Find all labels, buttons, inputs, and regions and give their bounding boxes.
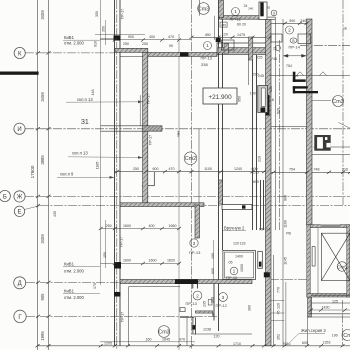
beam black square	[242, 205, 246, 208]
stair landing line	[270, 126, 307, 128]
wall W6 lower piece	[308, 297, 312, 317]
line x285.9 lower right	[285, 282, 287, 346]
svg-text:529: 529	[277, 108, 281, 114]
small rect 28	[208, 300, 212, 306]
axis I horizontal	[25, 128, 350, 130]
black wall top right lower bars	[293, 86, 308, 88]
beam outline over H1	[217, 43, 269, 54]
wall H1 black segment	[180, 52, 189, 56]
svg-text:225: 225	[257, 56, 263, 60]
duct shaft black box	[261, 108, 266, 113]
wall W1 left line	[114, 0, 116, 346]
top right rect b	[298, 34, 311, 44]
svg-text:Сm: Сm	[343, 333, 350, 339]
wall H0 hatched horizontal top	[220, 16, 261, 20]
axis G horizontal	[26, 315, 218, 317]
wall W7 hatched (right-center)	[266, 20, 272, 346]
wall H1a hatched horizontal	[115, 48, 148, 52]
svg-text:ПР-12: ПР-12	[230, 16, 242, 21]
svg-text:900: 900	[283, 195, 287, 201]
svg-text:1600: 1600	[149, 259, 157, 263]
wall I-axis stub hatched	[143, 126, 162, 131]
axis circle B(half)	[0, 190, 10, 201]
svg-text:746: 746	[271, 57, 277, 61]
svg-text:ПР-17: ПР-17	[149, 135, 153, 145]
PR labels	[186, 16, 301, 308]
svg-text:ПР-17: ПР-17	[147, 94, 151, 104]
duct shaft mid right outline	[258, 86, 268, 113]
svg-text:970: 970	[179, 338, 185, 342]
svg-text:120: 120	[214, 335, 220, 339]
svg-text:600: 600	[253, 180, 259, 184]
svg-text:3885: 3885	[40, 155, 45, 165]
svg-text:3459: 3459	[40, 234, 45, 244]
room below shaft lines	[308, 295, 350, 317]
svg-text:1100: 1100	[204, 167, 212, 171]
svg-text:05: 05	[229, 260, 233, 264]
bottom centre room rect outer	[223, 250, 256, 279]
svg-text:ПР-14: ПР-14	[259, 227, 271, 232]
mid chain ticks	[115, 170, 119, 173]
svg-text:отм. 2.000: отм. 2.000	[64, 269, 85, 274]
axis vertical x191.5	[191, 0, 193, 350]
svg-text:352: 352	[277, 334, 281, 340]
line x199.5 top	[199, 0, 201, 16]
svg-text:235: 235	[203, 301, 207, 307]
duct shaft inner slot	[262, 88, 266, 106]
svg-text:ПР-17: ПР-17	[121, 312, 125, 322]
svg-text:900: 900	[128, 35, 134, 39]
black junction W3 top dim	[216, 38, 221, 42]
svg-text:1995: 1995	[40, 331, 45, 341]
svg-text:190: 190	[250, 92, 256, 96]
svg-text:600: 600	[153, 167, 159, 171]
svg-text:190: 190	[211, 253, 215, 259]
top chain ticks	[113, 38, 117, 41]
wall W5 hatched	[195, 205, 200, 238]
dimension chain top y40	[100, 39, 192, 41]
svg-text:1Б: 1Б	[343, 27, 347, 31]
dimension line 754 with arrows	[284, 54, 307, 57]
svg-text:КиВ1: КиВ1	[64, 289, 75, 294]
svg-text:219: 219	[258, 156, 262, 162]
elevator car rect with X	[318, 228, 350, 294]
svg-text:605: 605	[302, 341, 308, 345]
elevator shaft walls	[307, 225, 350, 298]
svg-text:754: 754	[289, 168, 295, 172]
wall H4 hatched band	[195, 311, 212, 313]
svg-text:скл.п 13: скл.п 13	[77, 97, 93, 102]
svg-text:отм. 2.000: отм. 2.000	[64, 295, 85, 300]
top shaft column outline	[259, 2, 267, 20]
svg-text:Сm5: Сm5	[337, 264, 347, 269]
svg-text:1710: 1710	[233, 342, 241, 346]
line x273.4 lower	[272, 255, 274, 346]
ticks on y310 chain	[309, 308, 347, 311]
axis circle G	[14, 310, 26, 322]
svg-text:Жил.серия 3: Жил.серия 3	[301, 328, 326, 333]
ext line x140.2	[139, 95, 141, 126]
dimension chain top y34.7	[95, 34, 145, 36]
svg-text:ПР-13: ПР-13	[201, 56, 213, 61]
svg-text:Д: Д	[18, 281, 22, 287]
svg-text:900: 900	[289, 19, 295, 23]
dimension chain bottom main y345.8	[38, 345, 350, 347]
svg-text:400: 400	[149, 35, 155, 39]
black wall top right upper corner	[293, 72, 296, 82]
svg-text:120: 120	[233, 241, 239, 245]
svg-text:133: 133	[269, 86, 273, 92]
svg-text:Ж: Ж	[17, 195, 23, 201]
svg-text:148: 148	[91, 90, 95, 96]
svg-text:470: 470	[169, 167, 175, 171]
rotated dimension texts left column	[30, 10, 45, 341]
rotated texts near W1	[53, 9, 287, 340]
wall H4 black corner	[192, 325, 195, 330]
svg-text:445: 445	[221, 23, 226, 27]
svg-text:133: 133	[240, 241, 246, 245]
svg-text:160: 160	[146, 338, 152, 342]
dim line vertical left 2	[48, 0, 50, 350]
svg-text:7646: 7646	[283, 342, 291, 346]
top left small room rect	[221, 40, 234, 50]
stair wall line x263.5	[263, 180, 265, 230]
svg-text:350: 350	[102, 26, 106, 32]
axis vertical x116.5	[116, 0, 118, 350]
line x128.5 bottom	[128, 287, 130, 346]
svg-text:1660: 1660	[169, 224, 177, 228]
dim line vertical left 1	[37, 0, 39, 350]
svg-text:1185: 1185	[96, 162, 100, 170]
svg-text:190: 190	[332, 333, 338, 337]
black junction W1 low	[114, 292, 121, 297]
svg-text:125: 125	[332, 300, 338, 304]
line y56.6 below H1a	[120, 56, 148, 58]
wall W4 line a	[252, 38, 254, 230]
svg-text:1160: 1160	[283, 220, 287, 228]
wall H1b hatched horizontal lower	[148, 53, 217, 57]
beam rect near Vruchnuyu	[222, 205, 252, 210]
svg-text:ПР-12: ПР-12	[216, 303, 228, 308]
extension line x179	[178, 34, 180, 350]
svg-text:отм. 2.000: отм. 2.000	[64, 41, 85, 46]
svg-text:1600: 1600	[123, 259, 131, 263]
svg-text:Сm3: Сm3	[158, 330, 169, 336]
svg-text:4мв: 4мв	[177, 131, 181, 137]
right column tick lines	[271, 301, 284, 321]
svg-text:3459: 3459	[40, 92, 45, 102]
svg-text:45: 45	[277, 311, 281, 315]
svg-text:Вручную 2: Вручную 2	[224, 226, 245, 231]
svg-text:60: 60	[237, 23, 241, 27]
svg-text:ПР-13: ПР-13	[189, 250, 201, 255]
wall H3 black segment	[175, 279, 198, 284]
wall W3 top hatched	[219, 0, 224, 18]
svg-text:338: 338	[201, 62, 208, 67]
svg-text:1353: 1353	[323, 341, 331, 345]
wall H4 area	[180, 284, 252, 335]
wall W6 hatched (right)	[307, 19, 313, 225]
black junction W1 mid	[114, 262, 121, 269]
wall H3 hatched (D axis)	[120, 280, 252, 284]
svg-text:754: 754	[286, 64, 292, 68]
+21.900 box	[203, 88, 237, 104]
axis circle D	[14, 277, 26, 289]
svg-text:1400: 1400	[235, 255, 243, 259]
svg-text:950: 950	[238, 96, 242, 102]
stair wall line x260	[260, 180, 262, 230]
dimension line right y310	[311, 309, 350, 311]
svg-text:скл.п 13: скл.п 13	[72, 151, 88, 156]
wall H0 thin continuation right of shaft	[268, 16, 276, 18]
svg-text:1145: 1145	[283, 257, 287, 265]
line y286.7 below H3	[129, 286, 181, 288]
svg-text:400: 400	[149, 224, 155, 228]
svg-text:+21.900: +21.900	[208, 94, 232, 101]
duct shaft lower outline	[258, 251, 263, 268]
svg-text:18: 18	[270, 98, 274, 102]
top right rect a	[271, 34, 282, 42]
svg-text:Сm3: Сm3	[198, 7, 209, 13]
dashed line top right PR-14	[300, 45, 350, 47]
dimension chain mid y171.6	[114, 171, 270, 173]
y227/261 ticks	[99, 227, 103, 230]
svg-text:И: И	[17, 127, 21, 133]
svg-text:25: 25	[295, 74, 299, 78]
svg-text:120: 120	[222, 33, 228, 37]
svg-text:24: 24	[244, 4, 248, 8]
wall W4 line b	[256, 55, 258, 230]
wall I-stub edge lines to W1	[101, 125, 143, 127]
svg-text:1430: 1430	[322, 306, 330, 310]
svg-text:360: 360	[248, 305, 252, 311]
W7 black square	[264, 272, 270, 277]
wall notch above H2	[142, 185, 155, 187]
dimension chain y228.5	[101, 228, 181, 230]
svg-text:1620: 1620	[167, 259, 175, 263]
svg-text:ПР-17: ПР-17	[121, 9, 125, 19]
svg-text:1238: 1238	[203, 328, 211, 332]
leader Cm3 right	[312, 99, 331, 102]
line x187 bottom	[186, 317, 188, 346]
svg-text:90: 90	[169, 44, 173, 48]
elevator door frame	[312, 247, 315, 266]
wall W3 lower left	[213, 283, 215, 321]
beam inner element	[224, 44, 229, 54]
svg-text:1645: 1645	[162, 338, 170, 342]
dimension chain texts	[104, 19, 348, 346]
axis K horizontal	[25, 52, 115, 54]
svg-text:ПР-17: ПР-17	[120, 237, 124, 247]
svg-text:770: 770	[277, 287, 281, 293]
door swings bottom of top-right area	[270, 72, 350, 76]
dashed line bottom right	[270, 279, 307, 281]
svg-text:1600: 1600	[123, 224, 131, 228]
svg-text:905: 905	[40, 293, 45, 301]
axis circle E	[14, 206, 24, 216]
duct shaft lower black box	[259, 262, 262, 267]
line x283 stair	[282, 19, 284, 346]
svg-text:ПР-13: ПР-13	[186, 301, 198, 306]
svg-text:Е: Е	[17, 210, 21, 216]
svg-text:1205: 1205	[104, 342, 112, 346]
svg-text:350: 350	[95, 11, 99, 17]
svg-text:20: 20	[242, 23, 246, 27]
svg-text:скл.п 9: скл.п 9	[60, 171, 74, 176]
svg-text:65: 65	[267, 6, 271, 10]
axis circle K	[14, 47, 25, 58]
wall W4 top hatched	[249, 37, 253, 60]
wall H2 hatched (E axis)	[120, 203, 204, 207]
dimension chain topright y23	[271, 22, 312, 24]
svg-text:Сm3: Сm3	[332, 99, 343, 105]
svg-text:250: 250	[106, 224, 112, 228]
svg-text:17600: 17600	[30, 165, 35, 178]
diagonal line near Cm3	[339, 123, 350, 129]
svg-text:РВ: РВ	[286, 232, 291, 236]
svg-text:150: 150	[103, 252, 107, 258]
black wall stub at left edge	[0, 72, 39, 75]
svg-text:КиВ1: КиВ1	[64, 35, 75, 40]
wall W3 lower right	[218, 283, 220, 331]
svg-text:240: 240	[248, 6, 253, 10]
dimension chain top mid y37	[192, 36, 271, 38]
wall W3 mid hatched	[219, 180, 223, 204]
axis vertical x342 lower	[342, 300, 344, 345]
bottom chain ticks	[36, 344, 40, 347]
top shaft black bar	[260, 3, 263, 17]
dimension chain right y172	[270, 171, 350, 173]
axis Zh horizontal	[25, 195, 350, 197]
svg-text:ПР-14: ПР-14	[289, 44, 301, 49]
W7 black segment	[266, 95, 270, 116]
axis vertical x343	[342, 0, 344, 205]
svg-text:490: 490	[205, 33, 211, 37]
svg-text:Сm2: Сm2	[185, 156, 196, 162]
leader E circle	[25, 206, 41, 210]
svg-text:3459: 3459	[40, 10, 45, 20]
line x199 mid	[198, 129, 200, 203]
svg-text:31: 31	[81, 119, 89, 126]
svg-text:748: 748	[314, 168, 320, 172]
dimension chain y263.5	[101, 263, 181, 265]
axis dashed x279.7	[279, 40, 281, 230]
wall W3 left line	[218, 0, 220, 283]
svg-text:250: 250	[142, 42, 148, 46]
line below P shaft	[314, 146, 350, 148]
axis circle I	[14, 123, 25, 134]
svg-text:120: 120	[277, 303, 281, 309]
svg-text:470: 470	[168, 35, 174, 39]
dimension chain bottom y341.8	[100, 341, 195, 343]
svg-text:435: 435	[53, 211, 57, 217]
svg-text:К: К	[18, 51, 22, 57]
svg-text:600: 600	[211, 268, 215, 274]
svg-text:1000: 1000	[240, 264, 244, 272]
svg-text:9: 9	[273, 12, 275, 16]
small rect left H4	[180, 308, 185, 312]
svg-text:170: 170	[93, 283, 97, 289]
extension line x100.5	[100, 0, 102, 285]
vertical dimension small line x105.3 top	[101, 20, 214, 280]
wall W1 right line	[119, 0, 121, 346]
svg-text:245: 245	[258, 74, 264, 78]
axis circle Zh	[14, 191, 25, 202]
line x214.3 top	[213, 16, 215, 40]
axis E horizontal	[40, 205, 350, 207]
svg-text:250: 250	[133, 167, 139, 171]
svg-text:1475: 1475	[237, 33, 245, 37]
axis D horizontal	[26, 281, 120, 283]
black junction W1 top	[114, 35, 121, 40]
svg-text:250: 250	[123, 42, 129, 46]
svg-text:910: 910	[94, 41, 98, 47]
svg-text:1240: 1240	[234, 167, 242, 171]
svg-text:309: 309	[210, 297, 214, 303]
line x275 right	[274, 17, 276, 230]
bottom centre room rect inner	[225, 252, 254, 278]
svg-text:26: 26	[273, 47, 277, 51]
svg-text:ПР-12: ПР-12	[226, 275, 238, 280]
svg-text:Б: Б	[3, 194, 7, 200]
wall W2 hatched vertical	[143, 51, 148, 205]
svg-text:КиВ1: КиВ1	[64, 262, 75, 267]
beam inner hatched band	[218, 48, 268, 54]
wall W3 right line	[222, 0, 224, 250]
P-shaped shaft right (Cm3)	[314, 135, 330, 151]
